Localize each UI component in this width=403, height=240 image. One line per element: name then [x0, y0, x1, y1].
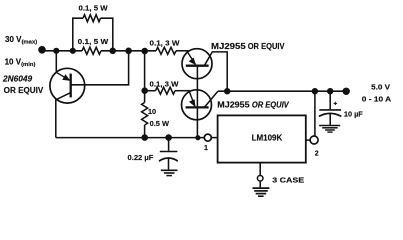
svg-text:0.1, 5 W: 0.1, 5 W: [79, 4, 109, 13]
svg-text:0.1, 3 W: 0.1, 3 W: [150, 80, 180, 89]
svg-text:OR EQUIV: OR EQUIV: [4, 86, 44, 95]
svg-text:MJ2955: MJ2955: [217, 100, 250, 109]
svg-text:LM109K: LM109K: [252, 133, 283, 142]
svg-text:0.1, 5 W: 0.1, 5 W: [78, 37, 109, 46]
svg-text:10: 10: [148, 107, 156, 116]
svg-text:0.5 W: 0.5 W: [150, 119, 169, 128]
svg-text:OR EQUIV: OR EQUIV: [252, 100, 290, 109]
svg-text:3 CASE: 3 CASE: [272, 176, 304, 185]
svg-text:5.0 V: 5.0 V: [371, 84, 390, 91]
svg-text:0.1, 3 W: 0.1, 3 W: [150, 38, 181, 47]
svg-text:2: 2: [315, 150, 319, 157]
svg-text:0 - 10 A: 0 - 10 A: [362, 96, 391, 103]
svg-text:OR EQUIV: OR EQUIV: [248, 42, 286, 51]
svg-text:1: 1: [204, 145, 208, 152]
svg-text:2N6049: 2N6049: [2, 74, 33, 83]
svg-text:10 µF: 10 µF: [344, 109, 363, 118]
svg-text:MJ2955: MJ2955: [211, 42, 247, 51]
svg-text:0.22 µF: 0.22 µF: [128, 153, 154, 162]
